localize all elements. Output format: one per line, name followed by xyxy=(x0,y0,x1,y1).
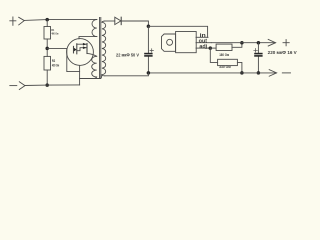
wire gate path xyxy=(47,48,79,71)
wire R3 to out rail xyxy=(232,43,242,48)
svg-text:480 Ом: 480 Ом xyxy=(52,63,60,67)
transistor VT1 channel bar xyxy=(76,44,78,54)
input terminal + plus sign xyxy=(10,17,16,25)
transformer T1 secondary winding xyxy=(102,21,106,76)
regulator U1 pin in xyxy=(196,36,208,38)
transistor VT1 circle xyxy=(67,39,94,66)
wire secondary bottom step xyxy=(105,73,149,76)
resistor R2 xyxy=(44,56,51,70)
transistor VT1 gate bar xyxy=(73,46,75,53)
capacitor C1 plates xyxy=(144,53,152,55)
resistor R1 xyxy=(44,27,51,40)
input terminal minus sign xyxy=(10,85,17,87)
regulator U1 tab xyxy=(162,34,176,51)
input terminal minus arrow xyxy=(19,82,25,90)
svg-text:220 мкФ 16 V: 220 мкФ 16 V xyxy=(268,50,297,55)
svg-text:480 Ом: 480 Ом xyxy=(51,31,58,35)
capacitor C2 lead xyxy=(257,43,259,73)
transformer T1 primary winding xyxy=(92,20,97,37)
transistor VT1 drain stub with arrow xyxy=(77,43,87,45)
node divider junction xyxy=(45,47,49,51)
wire R2 bottom lead xyxy=(46,70,48,85)
wire secondary bottom left hook xyxy=(100,75,102,79)
input terminal + arrow xyxy=(19,17,25,25)
wire out rail xyxy=(211,42,275,44)
wire feedback bottom to source xyxy=(80,78,100,80)
junction R2 bottom xyxy=(45,83,49,87)
transistor VT1 source stub with arrow xyxy=(77,48,87,51)
transistor VT1 substrate arrow xyxy=(74,48,77,52)
svg-text:330 Ом: 330 Ом xyxy=(219,64,231,69)
regulator U1 hole xyxy=(167,39,173,45)
transformer T1 core xyxy=(100,18,101,79)
wire feedback winding top xyxy=(87,53,97,56)
regulator U1 pin out xyxy=(196,42,211,44)
resistor R4 330 Om xyxy=(218,59,238,65)
wire rail to regulator in xyxy=(148,26,207,37)
wire top rail xyxy=(24,19,97,20)
junction C2 bottom xyxy=(257,71,261,75)
junction R3 out xyxy=(240,41,244,45)
junction C1 top xyxy=(147,25,151,29)
capacitor C1 polarity plus xyxy=(150,49,153,52)
output arrow minus xyxy=(269,70,276,77)
regulator U1 pin adj xyxy=(196,47,210,49)
transistor VT1 right bar xyxy=(86,44,88,54)
regulator U1 body xyxy=(176,32,197,53)
junction R1 top xyxy=(45,18,49,22)
junction secondary bottom xyxy=(147,71,151,75)
wire R4 to bottom rail xyxy=(237,62,242,73)
junction R4 bottom xyxy=(240,71,244,75)
transformer T1 feedback winding xyxy=(92,56,97,78)
capacitor C1 lead xyxy=(147,26,149,73)
wire secondary top to diode xyxy=(105,20,115,22)
svg-text:22 мкФ 50 V: 22 мкФ 50 V xyxy=(116,52,139,57)
wire R1 bottom to R2 top xyxy=(46,39,48,56)
capacitor C2 plates xyxy=(254,53,262,55)
wire drain to transformer xyxy=(79,37,97,39)
output terminal minus sign xyxy=(282,72,290,74)
wire source vertical xyxy=(79,65,81,85)
svg-text:180 Ом: 180 Ом xyxy=(219,52,229,57)
resistor R3 180 Om xyxy=(216,44,232,50)
wire bottom-right rail xyxy=(148,72,276,74)
junction C2 top xyxy=(257,41,261,45)
wire bottom-left rail xyxy=(25,84,80,87)
wire R1 top lead xyxy=(46,20,48,27)
junction adj node xyxy=(209,46,213,50)
capacitor C2 polarity plus xyxy=(254,49,258,53)
wire diode to corner xyxy=(121,21,148,26)
wire adj to R3 xyxy=(210,47,216,49)
output arrow plus xyxy=(268,39,275,46)
wire adj down to R4 xyxy=(210,48,217,62)
svg-text:adj: adj xyxy=(199,44,207,50)
output terminal plus sign xyxy=(283,40,289,46)
diode VD1 xyxy=(115,17,121,24)
